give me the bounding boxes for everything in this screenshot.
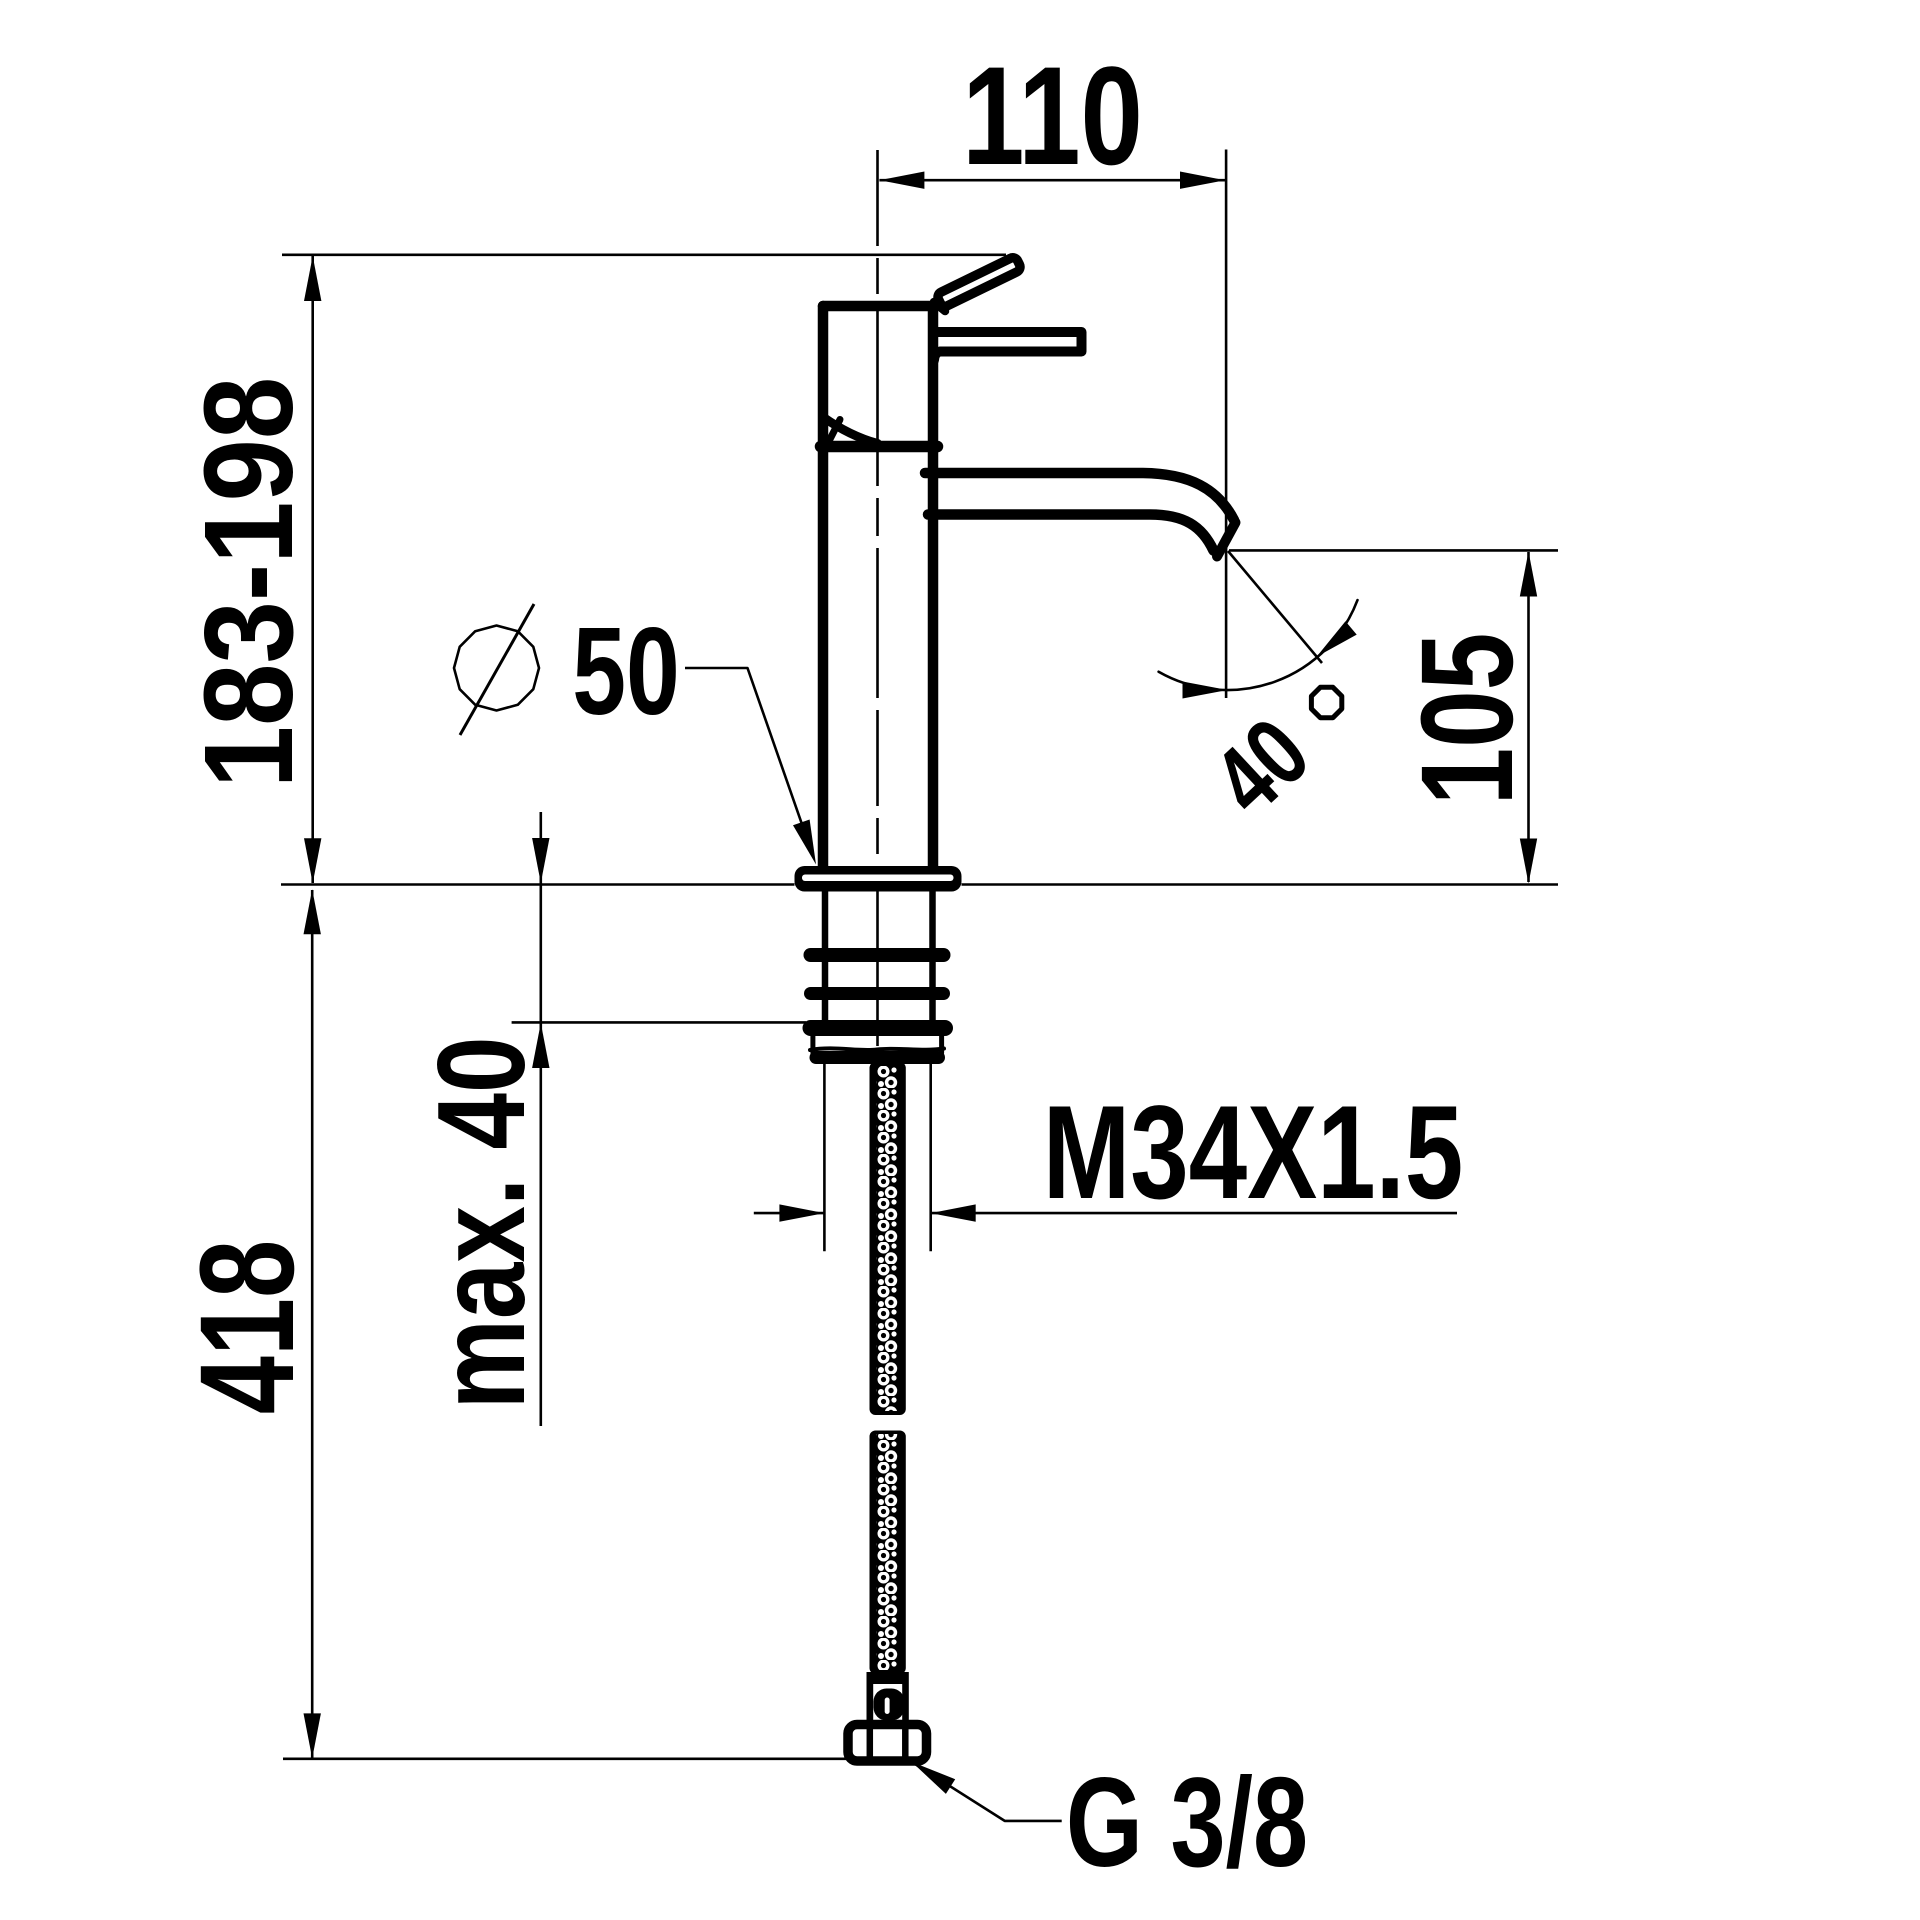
hose upper segment xyxy=(870,1062,906,1415)
centerline of faucet body xyxy=(876,150,879,1062)
lever pivot stub xyxy=(934,302,945,311)
arrow down max40 (at deck) xyxy=(532,838,549,883)
swivel rail left xyxy=(867,1684,874,1725)
mounting ring B xyxy=(811,987,944,1000)
spout top edge and outlet face xyxy=(925,473,1234,520)
svg-text:105: 105 xyxy=(1394,633,1540,806)
svg-text:M34X1.5: M34X1.5 xyxy=(1043,1079,1464,1227)
swivel ball slot xyxy=(885,1698,890,1715)
40deg arc arrow left xyxy=(1183,682,1228,699)
hose braid pattern xyxy=(876,1066,898,1670)
hose lower segment xyxy=(870,1431,906,1675)
reference line top y=255 xyxy=(282,254,1006,257)
svg-text:418: 418 xyxy=(173,1240,322,1414)
dimension line 418 xyxy=(311,890,314,1758)
arrow up max40 (at 1022) xyxy=(532,1023,549,1068)
arrow down 418 xyxy=(304,1713,321,1758)
leader 50 arrow xyxy=(793,820,816,865)
leader G3/8 xyxy=(912,1762,1062,1821)
reference line spout outlet y=550 xyxy=(1229,549,1558,552)
swivel rail right xyxy=(902,1684,909,1725)
faucet handle lever xyxy=(936,256,1022,308)
cartridge block (top + right edge down to flange) xyxy=(823,306,933,868)
spout bottom edge xyxy=(928,515,1214,551)
max40 reference line y=1022 xyxy=(512,1021,806,1024)
arrow up 183-198 xyxy=(304,256,321,301)
arrow up 418 xyxy=(304,889,321,934)
spout outlet face xyxy=(1217,523,1236,557)
leader G3/8 arrow xyxy=(912,1762,956,1794)
swivel ball xyxy=(874,1689,905,1721)
M34 arrow left xyxy=(779,1204,824,1221)
shank right line xyxy=(929,892,936,1021)
arrow down 183-198 xyxy=(304,838,321,883)
nut bottom bar xyxy=(816,1051,939,1064)
diameter symbol circle xyxy=(454,626,539,711)
hose ferrule xyxy=(867,1672,909,1684)
M34 extension line left xyxy=(823,1062,826,1251)
leader 50 xyxy=(685,668,812,853)
arrow right of 110 xyxy=(1180,172,1225,189)
hex nut flat right xyxy=(902,1730,909,1757)
deck line left segment xyxy=(281,883,795,886)
svg-text:183-198: 183-198 xyxy=(179,377,320,789)
diameter symbol slash xyxy=(460,604,534,735)
base flange xyxy=(795,866,962,892)
arrow left of 110 xyxy=(879,172,924,189)
deck line right segment xyxy=(962,883,1559,886)
dimension line max40 xyxy=(539,812,542,1426)
M34 dim line left tail xyxy=(754,1212,825,1215)
40deg diagonal ray xyxy=(1228,551,1322,663)
svg-text:110: 110 xyxy=(962,37,1143,194)
nut side right xyxy=(939,1036,944,1053)
mounting ring A xyxy=(811,948,944,962)
body left edge xyxy=(818,306,829,866)
hex nut flat left xyxy=(867,1730,874,1757)
nut side left xyxy=(810,1036,815,1053)
skirt small diagonal xyxy=(827,420,841,447)
M34 dim line right tail xyxy=(931,1212,1457,1215)
svg-text:50: 50 xyxy=(572,601,680,740)
svg-text:max. 40: max. 40 xyxy=(412,1036,551,1409)
arrow up 105 xyxy=(1520,552,1537,597)
hex nut G3/8 xyxy=(848,1725,927,1762)
40deg arc xyxy=(1159,600,1358,690)
handle skirt curve xyxy=(823,417,878,444)
arrow down 105 xyxy=(1520,839,1537,884)
mounting ring C xyxy=(811,1020,946,1036)
M34 arrow right xyxy=(931,1204,976,1221)
bottom reference line y=1759 xyxy=(283,1758,850,1761)
M34 extension line right xyxy=(929,1062,932,1251)
nut wavy break line xyxy=(810,1048,944,1050)
dimension line 110 xyxy=(879,179,1225,182)
degree symbol octagon xyxy=(1311,687,1341,717)
dimension line 105 xyxy=(1527,552,1530,882)
joint line xyxy=(821,441,938,453)
shank left line xyxy=(822,892,829,1021)
dimension line 183-198 xyxy=(311,256,314,883)
handle arm xyxy=(933,332,1082,360)
extension line right x=1226 (110 dim / 40deg vertical ref) xyxy=(1225,150,1228,699)
svg-text:G 3/8: G 3/8 xyxy=(1066,1752,1308,1894)
40deg arc arrow right xyxy=(1317,621,1357,657)
